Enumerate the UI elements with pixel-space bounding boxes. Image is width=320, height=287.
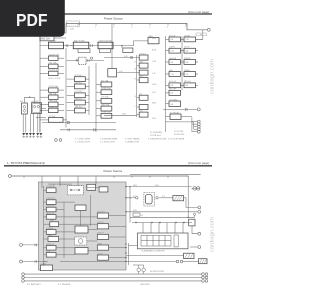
ECU right column boxes (97, 213, 108, 260)
wire left circle row 2 (20, 260, 23, 263)
motor assembly dashed (144, 193, 155, 206)
svg-text:2: ENGINE WIRE: 2: ENGINE WIRE (100, 139, 118, 141)
wire left circle row 1 (20, 244, 23, 247)
wire vertical bus x89 (88, 66, 90, 115)
ECU motor dashed (75, 237, 87, 245)
svg-text:PWR TR2: PWR TR2 (46, 206, 54, 208)
relay labels left (20, 101, 39, 103)
wire left drop from bus (40, 24, 66, 133)
label boxes under bus right (196, 33, 201, 36)
svg-text:Power Source: Power Source (104, 17, 123, 21)
svg-text:REV I/F: REV I/F (97, 233, 104, 235)
fuse row A box 1 (49, 42, 64, 49)
svg-text:B-W: B-W (152, 50, 156, 52)
svg-text:23 J/B No.1: 23 J/B No.1 (150, 135, 162, 137)
svg-text:SOL RLY: SOL RLY (97, 211, 105, 213)
fuse box AM2 top-left (40, 36, 54, 41)
pins to combination meter (130, 217, 183, 233)
relay box top center (123, 48, 133, 53)
junction dots bus2 (135, 222, 184, 223)
svg-text:G-R: G-R (152, 92, 156, 94)
svg-text:1: COWL WIRE: 1: COWL WIRE (75, 139, 91, 141)
ground bus right circles (202, 273, 208, 282)
svg-text:IG SW: IG SW (50, 40, 56, 42)
PDF badge (0, 0, 65, 37)
tick numbers under bus (77, 27, 186, 29)
wire labels page2 right (133, 185, 166, 217)
wire labels center-right p1 (119, 56, 137, 116)
wire mid connector row (163, 108, 197, 110)
row A sub-deck boxes (78, 49, 90, 53)
wire row A tail riser (122, 41, 148, 46)
wire gray edge vertical (128, 243, 130, 265)
wire row right y247 (190, 246, 198, 248)
svg-text:24 COWL: 24 COWL (174, 131, 184, 133)
svg-text:PWR TR1: PWR TR1 (46, 198, 54, 200)
svg-text:PDF: PDF (16, 10, 48, 30)
svg-text:L-W: L-W (152, 61, 156, 63)
capacitor components bottom (133, 265, 145, 274)
svg-text:IG RELAY: IG RELAY (47, 185, 56, 188)
ECU inner box 1 (46, 188, 56, 193)
switch row A box 3 (98, 42, 113, 49)
wire relay right stub (42, 108, 47, 110)
wire power bus (66, 24, 207, 30)
fuse FL MAIN on bus left (67, 21, 80, 26)
svg-text:6: 6 (167, 27, 168, 29)
wire drop x112 to ignition (111, 24, 113, 69)
wire drops into ECU (42, 178, 96, 188)
svg-text:OSC: OSC (50, 220, 55, 222)
svg-text:GROUND: GROUND (140, 284, 150, 286)
center-right column x101-111.8 (101, 82, 112, 118)
ECU right column labels (97, 211, 105, 255)
svg-text:3: INST PANEL: 3: INST PANEL (125, 138, 141, 141)
wire vertical bus x96 (95, 63, 97, 132)
wire relay drops (23, 114, 40, 133)
svg-text:(from next page): (from next page) (188, 10, 209, 14)
svg-text:R-B: R-B (152, 118, 156, 120)
node ticks bus page2 (24, 176, 168, 178)
wire vertical x130 (129, 187, 131, 218)
page 1 top border line (8, 13, 212, 15)
svg-text:EFI: EFI (20, 101, 23, 103)
relay R1 left (22, 103, 28, 114)
legend row text page1 (75, 138, 185, 144)
svg-text:7: 7 (185, 27, 186, 29)
in-box texts right columns (170, 38, 189, 106)
wire from resistor to terminal (192, 226, 198, 234)
svg-text:5: FLOOR WIRE: 5: FLOOR WIRE (168, 139, 185, 141)
ECU inner box 3 (99, 187, 108, 192)
labels center column (75, 53, 147, 113)
labels left column (49, 53, 61, 118)
connector on motor row (136, 197, 138, 199)
svg-text:E 1 ENGINE: E 1 ENGINE (58, 284, 71, 286)
node ticks on bus (78, 24, 186, 26)
captions bottom page2 (27, 283, 150, 286)
svg-text:COMBINATION METER: COMBINATION METER (141, 250, 165, 253)
svg-text:22 CENTER: 22 CENTER (150, 132, 162, 134)
switch dashed mid (108, 69, 117, 77)
svg-text:W-B: W-B (152, 103, 157, 105)
wire row ignition (67, 60, 79, 62)
left column fuses x48.5-58 (49, 56, 64, 122)
svg-text:G-W: G-W (152, 84, 156, 86)
wire vertical feeder (136, 55, 138, 117)
wire ECU to right rows (126, 187, 198, 212)
connector pair motor right (156, 197, 158, 199)
combination meter box (138, 233, 189, 249)
svg-text:1: 1 (77, 27, 78, 29)
connector circles mid row (193, 187, 196, 190)
wire relay feeds (24, 98, 35, 103)
svg-text:DIAG: DIAG (97, 242, 102, 245)
junction right (188, 217, 189, 218)
wire rows feeder to right pair boxes (137, 58, 140, 115)
svg-text:SENS I/F: SENS I/F (46, 244, 54, 246)
svg-text:L: L (135, 105, 136, 107)
terminal circles bottom right (197, 120, 200, 133)
svg-text:REG: REG (48, 235, 52, 237)
noise filter hatched (173, 196, 184, 201)
svg-text:CONNECTOR: CONNECTOR (125, 141, 139, 143)
svg-text:25 ROOM: 25 ROOM (174, 134, 184, 136)
svg-text:4: 4 (131, 27, 132, 29)
wire row A (40, 45, 122, 47)
svg-text:B-W: B-W (124, 56, 128, 58)
wire row to relay pair (104, 57, 137, 59)
ground symbols page1 (22, 133, 42, 136)
ECU relay dashed (67, 186, 83, 195)
svg-text:cardiagn.com: cardiagn.com (210, 217, 216, 252)
svg-text:cardiagn.com: cardiagn.com (210, 59, 216, 94)
wire center column stubs (67, 79, 89, 110)
wire right vertical drop (187, 178, 189, 218)
switch row A box 2 (73, 42, 89, 49)
terminal circles right rows (198, 206, 201, 209)
svg-text:DRIVER: DRIVER (46, 228, 53, 230)
svg-text:B-W: B-W (133, 210, 137, 212)
page 2 top border line (4, 165, 212, 167)
fuse far-right col A and B rows (169, 37, 196, 120)
wire stubs center-right column (96, 85, 101, 116)
svg-text:4: ENGINE ROOM: 4: ENGINE ROOM (148, 139, 166, 141)
ECU left column labels (41, 198, 56, 265)
wire lower row (42, 122, 116, 124)
wire top-right riser (196, 30, 203, 40)
terminal circle bus left (8, 175, 11, 178)
switch box row A right (148, 38, 159, 44)
ground bus left circles (22, 273, 25, 282)
wire labels left of right column (152, 38, 157, 120)
svg-text:3: 3 (113, 27, 114, 29)
svg-text:Power Source: Power Source (104, 169, 123, 173)
svg-text:B 1 BATTERY: B 1 BATTERY (27, 283, 41, 286)
ECU internal wires (44, 186, 127, 266)
wire lower row 2 (60, 129, 116, 131)
legend col right page1 (150, 131, 184, 137)
wire bus secondary (130, 216, 195, 218)
node junctions gray edge (125, 186, 126, 262)
wire drop x122 (121, 46, 123, 48)
noise filter hatched 2 (184, 253, 194, 258)
center column relays x74.5-85.3 (75, 77, 86, 113)
svg-text:J 2 JUNCTION: J 2 JUNCTION (100, 141, 115, 143)
terminal circle right of bus (207, 28, 210, 31)
svg-text:W: W (135, 69, 137, 71)
connector row A mid (91, 44, 93, 47)
wire stubs right columns (166, 39, 203, 122)
labels right columns (169, 35, 192, 114)
svg-text:L-R: L-R (152, 73, 156, 75)
relay R2 left (32, 103, 42, 114)
ground bus lines bottom (25, 274, 202, 281)
wire power bus page2 (11, 176, 188, 178)
svg-text:AM2 FUSE: AM2 FUSE (74, 39, 85, 42)
ECU left column boxes (41, 200, 59, 271)
svg-text:1. TOYOTA PREVIA(Cont’d): 1. TOYOTA PREVIA(Cont’d) (7, 161, 45, 165)
right columns: labels (166, 36, 183, 132)
svg-text:5: 5 (149, 27, 150, 29)
svg-text:SPD I/F: SPD I/F (97, 222, 104, 224)
connector circles legend (55, 139, 58, 142)
ECU inner box 2 (87, 184, 96, 190)
labels col x139 (139, 60, 143, 112)
wire bottom-right riser to terminals (191, 117, 193, 132)
svg-text:INPUT I/F: INPUT I/F (46, 213, 55, 215)
wire vertical bus x66 (65, 48, 67, 128)
wire row noise filter 2 (126, 255, 184, 257)
ignition switch dashed center (79, 57, 87, 64)
svg-text:2: 2 (95, 27, 96, 29)
ECU center column boxes (75, 205, 88, 254)
bus secondary label box (133, 213, 140, 216)
svg-text:NOISE FILTER: NOISE FILTER (150, 271, 165, 273)
ECU gray block (39, 182, 127, 270)
wire stubs left column (40, 58, 67, 120)
svg-text:B-W L-O W-R: B-W L-O W-R (49, 78, 61, 80)
svg-text:(from next page): (from next page) (188, 161, 209, 165)
meter inner grid (129, 235, 179, 247)
svg-text:J 1 JUNCTION: J 1 JUNCTION (75, 141, 90, 143)
node junction row A (121, 45, 122, 46)
wire row y117.7 (36, 117, 46, 119)
resistor box right (189, 219, 195, 226)
svg-text:IDL I/F: IDL I/F (97, 253, 103, 255)
PAGE 2 GROUP (4, 161, 216, 286)
relay pair column x139-148 (139, 55, 148, 117)
svg-text:IGNITION SW: IGNITION SW (99, 40, 112, 42)
wire bottom feeder row (104, 114, 137, 116)
svg-text:W: W (141, 215, 143, 217)
shield box hatched bottom right (199, 259, 208, 264)
wire bottom row with connectors (60, 261, 176, 263)
connector pair row A (66, 44, 71, 47)
wire bus tail to top right (130, 173, 201, 175)
PAGE 1 GROUP (8, 10, 216, 144)
svg-text:B-W: B-W (152, 38, 156, 40)
